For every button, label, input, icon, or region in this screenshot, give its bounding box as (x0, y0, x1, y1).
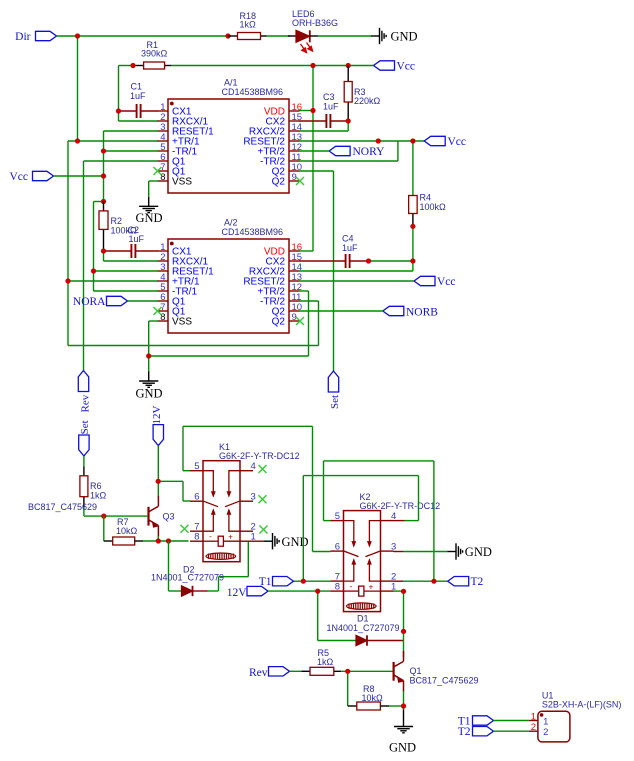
resistor R5 (302, 648, 342, 675)
svg-text:-: - (350, 582, 353, 591)
svg-text:4: 4 (251, 461, 256, 472)
resistor R4 (409, 193, 446, 227)
junction dots Dir net (65, 33, 230, 283)
wire Vcc left trunk (54, 131, 159, 291)
ground GND below A/1 (136, 181, 163, 225)
junction dot C2 node (101, 248, 106, 253)
svg-text:Rev: Rev (249, 667, 268, 679)
A/2 pin 2 RXCX/1 (158, 252, 209, 268)
junction dot Q1 emitter node (401, 703, 406, 708)
K1 pin 3 (240, 492, 256, 503)
K1 internal switch graphics (203, 471, 240, 532)
no-connect X A/1 pin7 (154, 167, 162, 175)
K2 coil core and polarity (344, 582, 381, 596)
wire K2 pin1 to Q1 collector (394, 591, 404, 657)
svg-text:BC817_C475629: BC817_C475629 (410, 676, 479, 686)
svg-text:D1: D1 (357, 614, 369, 624)
net flag NORB (383, 306, 438, 318)
svg-text:220kΩ: 220kΩ (354, 96, 381, 106)
resistor R6 (80, 466, 107, 507)
connector U1 S2B-XH-A (538, 690, 622, 742)
wire C3-R3 node to pin14 (299, 121, 348, 131)
U1 pin 1 (529, 712, 549, 728)
svg-text:5: 5 (335, 511, 340, 522)
LED LED6 (288, 9, 338, 53)
svg-text:Set: Set (329, 395, 341, 409)
no-connect X A/2 pin7 (154, 307, 162, 315)
A/2 pin 9 Q2 (272, 312, 300, 328)
svg-text:GND: GND (136, 211, 163, 225)
wire base node to R7 (104, 516, 113, 541)
svg-text:NORB: NORB (406, 306, 438, 318)
svg-text:1kΩ: 1kΩ (240, 20, 257, 30)
svg-text:Vcc: Vcc (437, 276, 456, 288)
svg-text:Dir: Dir (15, 31, 31, 43)
wire R6 to Q3 base (84, 507, 147, 516)
svg-text:GND: GND (389, 741, 416, 755)
op-amp U A/2 CD14538BM96 (158, 218, 303, 334)
A/2 pin 12 +TR/2 (257, 282, 302, 298)
resistor R8 (357, 684, 389, 710)
junction dot C3-R3 node (346, 118, 351, 123)
svg-text:2: 2 (543, 727, 548, 738)
svg-text:10kΩ: 10kΩ (116, 526, 138, 536)
A/2 pin 16 VDD (264, 242, 302, 258)
U1 pin 2 (529, 722, 549, 738)
net flag 12V left (151, 406, 164, 446)
svg-text:6: 6 (335, 542, 340, 553)
ground GND at K2 pin3 (448, 543, 492, 559)
K1 pin 1 (240, 532, 256, 543)
svg-text:T2: T2 (471, 576, 484, 588)
net flag T2 at K2 (448, 576, 484, 588)
A/2 pin 13 RESET/2 (243, 272, 302, 288)
A/2 pin 4 +TR/1 (158, 272, 200, 288)
diode D1 1N4001 (327, 614, 404, 646)
svg-text:1uF: 1uF (130, 91, 146, 101)
svg-text:12V: 12V (227, 587, 248, 599)
svg-text:NORY: NORY (353, 146, 386, 158)
net flag NORY (329, 146, 385, 158)
wire Vcc pin13 rail (299, 141, 424, 196)
wire LED6-GND (318, 35, 371, 37)
net flag T1 at K2 (259, 576, 294, 588)
no-connect X K1 pin7 (181, 525, 189, 533)
A/1 pin 4 +TR/1 (158, 132, 200, 148)
net flag T2 at U1 (458, 726, 494, 738)
wire T1 net (294, 476, 419, 582)
svg-text:3: 3 (251, 492, 256, 503)
no-connect X K1 pin3 (259, 495, 267, 503)
junction dots Vcc left trunk (91, 148, 106, 273)
no-connect X A/2 pin9 (296, 317, 304, 325)
wire GND net A/2 (149, 291, 309, 372)
svg-text:390kΩ: 390kΩ (141, 49, 168, 59)
K1 pin 6 (190, 492, 203, 503)
net flag Rev upper (78, 371, 91, 413)
wire Rev to R5 (290, 670, 302, 672)
A/1 pin 15 CX2 (266, 112, 303, 128)
svg-text:G6K-2F-Y-TR-DC12: G6K-2F-Y-TR-DC12 (219, 451, 300, 461)
A/2 pin 6 Q1 (158, 292, 186, 308)
svg-text:10kΩ: 10kΩ (362, 693, 384, 703)
svg-text:Q1: Q1 (410, 666, 422, 676)
A/1 pin 1 CX1 (158, 102, 192, 118)
svg-text:Q2: Q2 (272, 177, 286, 188)
A/2 pin 14 RXCX/2 (249, 262, 302, 278)
net flag Set lower (79, 420, 92, 456)
A/1 pin 14 RXCX/2 (249, 122, 302, 138)
K2 internal switch graphics (344, 521, 381, 582)
svg-text:BC817_C475629: BC817_C475629 (28, 502, 97, 512)
diode D2 1N4001 (151, 565, 224, 597)
wire K2 pin5 loop to T2 (324, 461, 434, 581)
wire Q3 emitter node to K1 pin8 (143, 536, 189, 541)
transistor Q1 BC817 (394, 651, 479, 692)
A/2 pin 5 -TR/1 (158, 282, 198, 298)
junction dot 12V right node (315, 589, 320, 594)
svg-text:GND: GND (136, 387, 163, 401)
K1 pin 4 (240, 461, 256, 472)
A/1 pin 11 -TR/2 (260, 152, 301, 168)
K2 pin 8 (331, 582, 344, 593)
svg-text:A/1: A/1 (224, 78, 238, 88)
wire Rev trunk from A/1 pin6 (84, 161, 159, 371)
svg-text:1N4001_C727079: 1N4001_C727079 (327, 623, 400, 633)
svg-text:GND: GND (391, 30, 418, 44)
A/1 pin 7 Q1 (158, 162, 186, 178)
svg-text:CD14538BM96: CD14538BM96 (222, 227, 284, 237)
A/1 pin 16 VDD (264, 102, 302, 118)
svg-text:+: + (228, 533, 233, 542)
no-connect X A/1 pin9 (296, 177, 304, 185)
svg-text:Q2: Q2 (272, 317, 286, 328)
net flag NORA (73, 296, 128, 308)
A/1 pin 10 Q2 (272, 162, 302, 178)
K2 pin 1 (381, 582, 397, 593)
svg-text:5: 5 (194, 461, 199, 472)
svg-text:-: - (209, 532, 212, 541)
A/2 pin 10 Q2 (272, 302, 302, 318)
junction dot GND net A/2 (146, 353, 151, 358)
K2 pin 3 (381, 542, 397, 553)
wire NORB (299, 310, 383, 312)
junction dot T2 node (431, 579, 436, 584)
wire K1 pin5 rail to K2 pin6 (183, 426, 331, 551)
transistor Q3 BC817 (28, 496, 175, 537)
K2 pin 6 (331, 542, 344, 553)
junction dot Q1 base node (345, 669, 350, 674)
no-connect X K1 pin2 (260, 526, 268, 534)
junction dot Q3 base node (101, 514, 106, 519)
wire D2 branch (169, 541, 249, 591)
net flag 12V right (227, 586, 268, 598)
K2 pin 2 (381, 572, 397, 583)
svg-text:8: 8 (335, 582, 340, 593)
A/1 pin 6 Q1 (158, 152, 186, 168)
wire T2 to U1 pin2 (494, 730, 529, 732)
svg-text:Rev: Rev (79, 394, 91, 412)
resistor R2 (99, 202, 137, 252)
wire C4-R4 node (299, 226, 413, 271)
A/2 pin 1 CX1 (158, 242, 192, 258)
svg-text:GND: GND (465, 545, 492, 559)
K2 coil winding symbol (347, 603, 377, 609)
junction dot 12V node (156, 479, 161, 484)
svg-text:Vcc: Vcc (9, 171, 28, 183)
K1 coil core and polarity (203, 532, 240, 546)
net flag Vcc right A/1 (424, 136, 466, 148)
A/2 pin 11 -TR/2 (260, 292, 301, 308)
A/1 pin 8 VSS (158, 172, 193, 188)
svg-text:NORA: NORA (73, 296, 106, 308)
K2 pin 4 (381, 511, 397, 522)
svg-text:1: 1 (531, 712, 536, 723)
relay K1 G6K-2F-Y-TR-DC12 (190, 442, 300, 562)
ground GND top right (371, 28, 418, 44)
svg-text:1kΩ: 1kΩ (90, 490, 107, 500)
wire K1 pin1 to GND (253, 540, 264, 542)
svg-text:1uF: 1uF (342, 243, 358, 253)
ground GND below Q1 (389, 710, 416, 755)
svg-text:Vcc: Vcc (448, 136, 467, 148)
A/2 pin 3 RESET/1 (158, 262, 215, 278)
wire T1 to U1 pin1 (494, 720, 529, 722)
A/1 pin 3 RESET/1 (158, 122, 215, 138)
wire K2 pin2 stub extension (394, 580, 404, 582)
net flag Set upper (328, 371, 341, 409)
svg-text:1uF: 1uF (129, 234, 145, 244)
resistor R1 (133, 40, 171, 69)
wire 12V right net (268, 591, 356, 640)
junction dots Vcc pin13 rail (376, 138, 416, 143)
net flag Vcc right A/2 (414, 276, 456, 288)
svg-text:1uF: 1uF (323, 101, 339, 111)
K2 pin 7 (331, 572, 344, 583)
wire Dir net top (57, 36, 319, 346)
svg-text:1kΩ: 1kΩ (317, 657, 334, 667)
wire C2 node to pin2 (104, 251, 159, 261)
wire T2 net (403, 580, 448, 582)
wire K2 pin3 stub extension (394, 551, 404, 553)
junction dots K2 pin1 branch (401, 589, 406, 634)
K1 pin 5 (190, 461, 203, 472)
capacitor C2 (104, 225, 159, 258)
wire R1 to C1 node (119, 66, 159, 122)
relay K2 G6K-2F-Y-TR-DC12 (331, 492, 441, 611)
wire NORA (128, 300, 159, 302)
wire A/2 pin13 to Vcc (299, 280, 414, 282)
wire Vcc top rail (171, 66, 374, 252)
ground GND at K1 pin1 (264, 533, 309, 549)
capacitor C4 (299, 234, 369, 269)
svg-text:G6K-2F-Y-TR-DC12: G6K-2F-Y-TR-DC12 (360, 501, 441, 511)
wire Q1 base node (341, 671, 393, 706)
svg-text:1N4001_C727079: 1N4001_C727079 (151, 572, 224, 582)
ground GND below A/2 (136, 372, 163, 401)
junction dots C4-R4 node (366, 224, 416, 264)
svg-text:8: 8 (194, 532, 199, 543)
svg-text:100kΩ: 100kΩ (420, 202, 447, 212)
A/1 pin 13 RESET/2 (243, 132, 302, 148)
svg-text:Vcc: Vcc (397, 61, 416, 73)
svg-text:2: 2 (531, 722, 536, 733)
svg-text:CD14538BM96: CD14538BM96 (222, 87, 284, 97)
A/2 pin 15 CX2 (266, 252, 303, 268)
svg-text:GND: GND (282, 535, 309, 549)
junction dot C1 node (116, 108, 121, 113)
svg-text:+: + (369, 583, 374, 592)
junction dot T1 node (301, 579, 306, 584)
A/2 pin 7 Q1 (158, 302, 186, 318)
capacitor C1 (119, 82, 159, 119)
svg-text:VSS: VSS (172, 177, 192, 188)
svg-text:S2B-XH-A-(LF)(SN): S2B-XH-A-(LF)(SN) (542, 700, 622, 710)
A/1 pin 2 RXCX/1 (158, 112, 209, 128)
wire Set trunk from A/1 pin10 (299, 171, 334, 371)
net flag T1 at U1 (458, 715, 494, 727)
wire 12V to Q3 collector node (158, 446, 190, 501)
K1 pin 7 (190, 522, 203, 533)
svg-text:6: 6 (194, 492, 199, 503)
junction dots Q3 emitter node (156, 538, 171, 543)
A/1 pin 9 Q2 (272, 172, 300, 188)
net flag Vcc left (9, 171, 53, 183)
net flag Vcc top (374, 61, 416, 73)
resistor R18 (228, 11, 267, 40)
K1 pin 8 (190, 532, 203, 543)
resistor R7 (113, 517, 143, 545)
svg-text:A/2: A/2 (224, 218, 238, 228)
net flag Rev lower (249, 667, 290, 679)
wire K2 pin3 to GND (403, 551, 448, 553)
net flag Dir (15, 31, 56, 43)
svg-text:1: 1 (543, 716, 548, 727)
K1 coil winding symbol (206, 553, 236, 559)
no-connect X K1 pin4 (259, 465, 267, 473)
wire K2 pin4 stub extension (394, 520, 405, 522)
junction dots Vcc top (130, 63, 350, 113)
wire R18-LED6 (267, 35, 291, 37)
wire Q1 emitter to GND (389, 691, 404, 710)
A/2 pin 8 VSS (158, 312, 193, 328)
K2 pin 5 (331, 511, 344, 522)
svg-text:T2: T2 (458, 726, 471, 738)
resistor R3 (344, 66, 380, 122)
wire NORY (299, 150, 329, 152)
K1 pin 2 (240, 522, 256, 533)
op-amp U A/1 CD14538BM96 (158, 78, 303, 194)
svg-text:ORH-B36G: ORH-B36G (292, 18, 338, 28)
capacitor C3 (299, 92, 348, 128)
A/1 pin 12 +TR/2 (257, 142, 302, 158)
svg-text:Q3: Q3 (163, 512, 175, 522)
A/1 pin 5 -TR/1 (158, 142, 198, 158)
wire Set to R6 (83, 456, 85, 466)
svg-text:12V: 12V (151, 406, 163, 425)
svg-text:VSS: VSS (172, 317, 192, 328)
svg-text:Set: Set (79, 420, 91, 434)
